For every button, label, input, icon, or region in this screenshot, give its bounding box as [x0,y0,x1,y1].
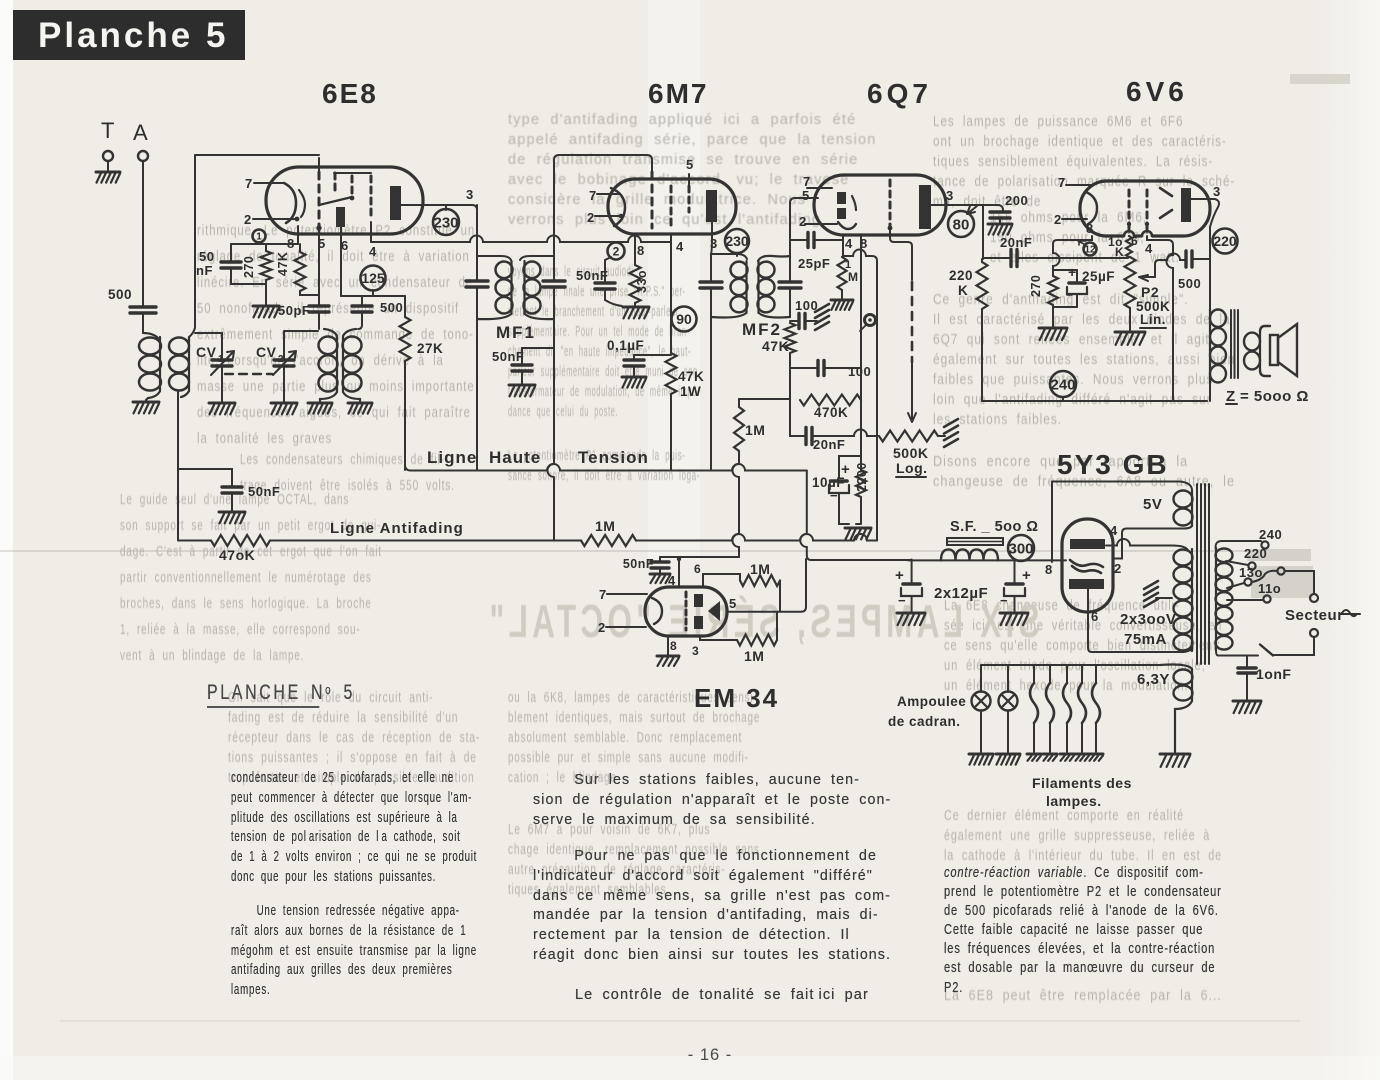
svg-text:2x3ooV: 2x3ooV [1120,611,1176,628]
filament bus [981,664,1160,666]
tap 220 [1226,561,1248,565]
ground (10uF/2200) [845,527,871,530]
transformer core [1197,484,1209,664]
svg-text:47K: 47K [678,369,704,384]
bleed-through text left-lower [120,487,300,669]
svg-text:= 5ooo Ω: = 5ooo Ω [1240,388,1309,405]
ground (6M7 cathode) [623,306,649,309]
node circle 1 [253,230,266,243]
svg-text:7: 7 [245,176,253,191]
svg-text:Haute: Haute [489,448,541,467]
svg-text:230: 230 [725,233,749,249]
paper shading layers [0,0,13,1080]
P2 wiper arrow [1139,275,1155,281]
svg-text:Secteur: Secteur [1285,607,1344,624]
6Q7 cathode [838,222,856,229]
svg-text:Tension: Tension [578,448,649,467]
svg-text:1W: 1W [680,384,701,399]
tube heater 2 [1049,665,1051,683]
svg-text:50: 50 [199,249,214,264]
svg-text:Filaments des: Filaments des [1032,775,1132,791]
capacitor 50nF (AVC filter) [222,487,242,493]
ground (CV1) [209,402,235,405]
svg-text:220: 220 [949,268,973,283]
6M7 anode bar [706,190,717,222]
MF2 secondary tuning capacitor [779,282,801,288]
cathode network rail [231,243,298,245]
svg-text:−: − [830,488,838,503]
tap 110 [1227,599,1263,601]
voltage circle 80 + arrow [948,211,974,237]
svg-text:80: 80 [953,216,970,233]
6V6 cathode [1086,192,1097,224]
svg-text:5: 5 [802,188,810,203]
svg-text:2: 2 [1054,212,1062,227]
wire anode to 20nF coupling [982,206,984,259]
bleed-through text top-left [197,218,413,452]
6E8 grid 3 (dashed) [351,176,354,196]
wire secondary bottom to AVC line [177,392,179,540]
transformer HT winding [1174,550,1193,566]
svg-text:K: K [958,283,968,298]
antenna coil primary [139,338,161,355]
svg-text:nF: nF [196,263,213,278]
svg-text:12: 12 [1084,245,1096,256]
svg-text:de cadran.: de cadran. [888,714,961,729]
svg-text:300: 300 [1008,540,1033,557]
tube heater 3 [1066,665,1068,683]
svg-text:240: 240 [1259,527,1282,542]
node circle 2 [608,243,625,260]
6V6 grid 1 (dashed) [1128,190,1131,235]
svg-text:6M7: 6M7 [648,78,708,109]
text column right [944,864,1157,998]
bleed-through big title (mirrored) [485,596,1039,648]
ground (6E8 cathode) [253,305,279,308]
svg-text:lampes.: lampes. [1046,793,1102,809]
ground (antenna coil) [133,401,159,404]
6M7 cathode [611,188,625,226]
output transformer secondary [1244,333,1260,351]
antenna coil secondary [169,338,189,355]
svg-text:4: 4 [845,236,853,251]
voltage circle 230 (6M7) [725,229,749,253]
svg-text:6E8: 6E8 [322,78,378,109]
wire MF1 secondary down [553,319,555,464]
6Q7 grid wire to volume pot [890,230,912,280]
wire detector junction [739,398,790,400]
oscillator coil (anode side) [343,337,362,355]
svg-text:7: 7 [1058,175,1066,190]
svg-text:Lin.: Lin. [1140,312,1166,327]
MF1 transformer secondary [520,256,554,260]
svg-text:20nF: 20nF [1000,235,1032,250]
6E8 oscillator anode bar [336,207,345,227]
node circle (cathode junction) [865,315,876,326]
svg-text:2: 2 [613,244,620,258]
voltage circle 125 [361,266,386,291]
svg-text:A: A [133,120,148,145]
title PLANCHE N5 [207,679,319,708]
svg-text:3: 3 [1213,184,1221,199]
svg-text:50nF: 50nF [492,349,524,364]
svg-text:8: 8 [637,243,645,258]
svg-text:M: M [848,270,859,284]
voltage circle 230 (6E8 anode) [445,205,447,210]
svg-text:2x12µF: 2x12µF [934,585,988,602]
ground (P2) [1115,331,1145,334]
chassis block (pot) [944,419,958,447]
svg-text:5V: 5V [1143,496,1162,513]
6E8 grid 4 (dashed) [370,176,373,220]
svg-text:13o: 13o [1239,565,1263,580]
svg-text:8: 8 [670,639,677,653]
lamp (dial) 1 [980,665,982,692]
6V6 cathode network rail [1053,269,1077,271]
svg-text:7: 7 [589,188,597,203]
svg-text:K: K [1115,245,1124,259]
svg-text:CV: CV [196,344,217,360]
svg-text:6,3Y: 6,3Y [1137,671,1170,688]
ground (cap 1) [897,612,925,615]
text column left [231,769,395,888]
wire diode feed (MF2 top to 6Q7 pin5) [790,198,818,256]
svg-text:500: 500 [1178,276,1201,291]
svg-text:220: 220 [1213,233,1237,249]
svg-text:6: 6 [1131,234,1138,248]
svg-text:EM 34: EM 34 [694,683,779,713]
tube heater 1 [1033,665,1035,683]
svg-text:20nF: 20nF [813,437,845,452]
svg-text:6: 6 [1091,609,1099,624]
svg-text:2: 2 [598,620,606,635]
6E8 grid 1 (dashed) [318,158,320,172]
svg-text:Ligne Antifading: Ligne Antifading [330,520,464,537]
svg-text:Z: Z [1226,388,1236,405]
svg-text:S.F. _ 5oo Ω: S.F. _ 5oo Ω [950,519,1039,535]
svg-text:50nF: 50nF [248,484,280,499]
voltage circle 220 (6V6 anode) [1213,229,1238,254]
svg-text:47oK: 47oK [219,547,255,563]
6Q7 grid (dashed) [889,180,892,226]
ground (200pF) [988,223,1012,226]
tube heater 5 [1095,665,1097,683]
bleed-through edge blobs top-right [1247,549,1311,561]
voltage circle 240 [1050,371,1076,397]
svg-text:3: 3 [466,187,474,202]
wire 5V top to B+ [1051,482,1053,563]
MF2 transformer secondary [758,262,775,278]
bleed-through text top-right [933,112,1176,212]
svg-text:+: + [895,567,904,584]
EM34 target (triangle) [708,601,720,621]
svg-text:0,1µF: 0,1µF [607,338,644,353]
svg-text:T: T [101,118,115,143]
svg-text:MF2: MF2 [742,320,782,339]
5Y3 filament [1070,560,1103,573]
gang dashed link CV1-CV2 [225,373,272,375]
6V6 grid 2 (dashed) [1146,190,1149,235]
MF1 transformer primary [477,205,511,260]
svg-text:75mA: 75mA [1124,631,1167,648]
svg-text:2: 2 [587,210,595,225]
svg-text:P2: P2 [1141,284,1159,300]
6E8 pin6 rail [341,295,405,297]
6E8 cathode [284,183,296,223]
B+ output bus [982,400,1207,402]
5Y3 anode bar bottom [1069,579,1104,589]
svg-text:1M: 1M [744,648,764,664]
6E8 pin5 / osc grid line [318,228,320,306]
wire AVC filter branch [178,469,232,487]
antenna terminal A [138,151,148,161]
svg-text:5: 5 [686,157,694,172]
svg-text:220: 220 [1244,546,1267,561]
6Q7 anode bar [919,185,931,229]
svg-text:6V6: 6V6 [1126,76,1188,107]
svg-text:6: 6 [694,562,701,576]
svg-text:−: − [1066,288,1074,302]
ground (MF1 50nF) [509,384,535,387]
output transformer primary [1209,227,1211,401]
svg-text:25µF: 25µF [1082,269,1115,284]
output transformer core [1231,310,1238,378]
wire MF1 secondary across HT bus to AVC [548,464,555,540]
6M7 grid 1 (dashed) [651,172,654,228]
ground (CV2) [271,402,297,405]
svg-text:8: 8 [1086,221,1094,236]
EM34 grid (dashed) [685,592,688,630]
wire EM34 grid line [660,556,739,558]
ground (6V6 cathode) [1039,327,1067,330]
svg-text:5: 5 [729,596,737,611]
svg-text:1M: 1M [745,422,765,438]
svg-text:Ligne: Ligne [427,448,477,467]
svg-text:125: 125 [361,270,385,286]
svg-text:7: 7 [599,587,607,602]
svg-text:8: 8 [1045,562,1053,577]
svg-text:50nF: 50nF [623,557,654,571]
svg-text:50pF: 50pF [278,303,310,318]
ground (osc anode coil) [348,402,372,405]
bleed-through text bottom-left block [228,688,406,788]
Haute Tension bus [405,464,807,470]
banner [13,10,245,60]
svg-text:270: 270 [242,256,256,278]
svg-text:2: 2 [1114,561,1122,576]
oscillator coil (grid side) [319,337,338,355]
bleed-through text top-middle [508,110,885,230]
svg-text:+: + [841,461,850,478]
svg-text:47K: 47K [276,252,290,276]
speaker [1270,335,1278,365]
svg-text:4: 4 [676,239,684,254]
ground (50nF AVC) [219,511,245,514]
6V6 anode bar [1181,188,1191,222]
bleed-through text bottom-right block [944,596,1156,696]
wire 470K to AVC bus [860,399,862,401]
svg-text:25pF: 25pF [798,256,830,271]
screen supply bus [371,236,671,243]
wire EM34 plate supply [800,471,911,561]
wire A down [142,161,144,307]
svg-text:240: 240 [1050,376,1075,393]
tap 130 [1227,583,1244,588]
page number [640,1046,780,1065]
svg-text:4: 4 [369,244,377,259]
svg-text:+: + [1022,567,1031,584]
svg-text:+: + [1068,264,1077,280]
EM34 deflector bars [694,594,703,607]
MF2 transformer primary [711,254,747,259]
wire MF1 primary to HT bus [476,319,478,470]
svg-text:2: 2 [799,214,807,229]
ground (6.3V winding) [1160,753,1190,756]
resistor 47K (diode load) [785,323,796,353]
6Q7 diode plates [837,192,846,204]
lamp (dial) 2 [1007,665,1009,692]
voltage circle 90 [672,307,697,332]
ground (osc grid coil) [308,402,332,405]
B+ line choke to 5Y3 [908,559,1003,561]
svg-text:6Q7: 6Q7 [867,78,932,109]
svg-text:2: 2 [244,212,252,227]
mains selector arm [1277,567,1284,574]
wire MF2 primary to HT bus [710,317,712,470]
transformer primary winding [1216,549,1233,563]
svg-text:5Y3 GB: 5Y3 GB [1057,449,1169,480]
svg-text:500: 500 [380,300,403,315]
svg-text:500K: 500K [893,445,928,461]
node circle 12 + arrow [1084,243,1097,256]
tube heater 4 [1081,665,1083,683]
svg-text:500: 500 [108,287,132,302]
svg-text:1onF: 1onF [1256,666,1291,682]
svg-text:6: 6 [341,238,349,253]
6V6 beam plates [1160,188,1172,218]
primary bottom lead [1216,650,1218,656]
primary top lead + tap 240 [1216,541,1261,550]
svg-text:CV: CV [256,344,277,360]
text column middle [533,771,885,830]
antifading (AVC) bus [178,540,211,542]
MF2 primary tuning capacitor [700,282,722,288]
svg-text:27K: 27K [417,341,443,356]
wire secondary top to grid line [189,155,319,337]
MF1 secondary tuning capacitor [543,281,565,287]
mains lower terminal + switch [1310,629,1318,637]
6E8 anode bar [390,186,401,220]
5Y3 anode bar top [1070,539,1105,549]
svg-text:3: 3 [946,188,954,203]
6E8 grid top link [334,172,371,174]
svg-text:4: 4 [1110,523,1118,538]
svg-text:4: 4 [1145,241,1153,256]
6E8 grid diagonal [319,197,352,205]
switch blade [1260,645,1273,656]
svg-text:−: − [898,593,906,608]
chassis block (100pF) [815,304,829,330]
6V6 capsule notches [1124,233,1134,238]
svg-text:1: 1 [256,232,262,243]
svg-text:11o: 11o [1258,581,1281,596]
svg-text:MF1: MF1 [496,323,536,342]
bleed-through text bottom-middle block [508,688,679,788]
svg-text:Log.: Log. [896,460,928,476]
svg-text:200: 200 [1005,193,1028,208]
svg-text:−: − [1000,593,1008,608]
svg-text:90: 90 [676,311,692,327]
svg-text:100: 100 [848,364,871,379]
MF1 primary tuning capacitor [466,281,488,287]
6E8 grid 2 (dashed) [334,173,337,193]
svg-text:7: 7 [803,174,811,189]
svg-text:270: 270 [1029,275,1043,297]
bleed-through text mid-middle [508,262,606,422]
voltage circle 300 [1008,535,1034,561]
svg-text:3: 3 [692,644,699,658]
svg-text:230: 230 [433,214,458,231]
ground (6Q7 grid leak) [831,299,853,302]
ground (cap 2) [1000,612,1028,615]
HT winding center tap + ground block [1156,597,1172,599]
ground (10nF) [1233,700,1261,703]
svg-text:1M: 1M [595,518,615,534]
svg-text:Ampoulee: Ampoulee [897,694,966,709]
ground (terminal T) [96,171,120,174]
EM34 cathode [652,598,662,624]
svg-text:50nF: 50nF [576,268,608,283]
6M7 grid 2 (dashed) [670,186,673,228]
6M7 grid wire [554,155,652,256]
